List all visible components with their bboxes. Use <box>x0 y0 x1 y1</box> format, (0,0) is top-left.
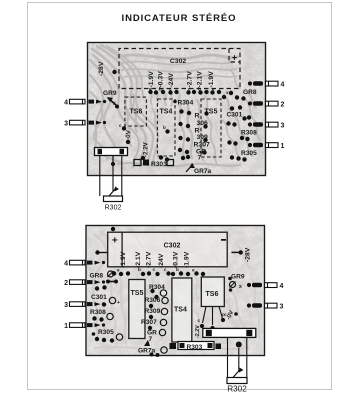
svg-text:GR8: GR8 <box>243 89 257 96</box>
svg-text:c: c <box>198 318 201 323</box>
svg-text:3: 3 <box>64 121 68 128</box>
diode GR7a bottom <box>138 340 167 355</box>
svg-text:R: R <box>195 113 200 120</box>
svg-text:2: 2 <box>281 102 285 109</box>
svg-text:-28V: -28V <box>98 61 105 76</box>
left pin 1 bottom <box>64 323 100 330</box>
svg-text:e: e <box>117 268 120 273</box>
right pin 4 bottom <box>247 283 284 290</box>
potentiometer R302 (top board) <box>104 187 123 212</box>
transistor TS6 dashed box <box>125 97 146 126</box>
svg-text:TS4: TS4 <box>174 307 187 314</box>
svg-text:GR7a: GR7a <box>194 168 212 175</box>
svg-text:b: b <box>176 267 179 272</box>
svg-text:-1.9V: -1.9V <box>120 251 127 268</box>
board outline bottom <box>86 226 265 356</box>
R302 connector block top board <box>95 148 128 167</box>
svg-text:R304: R304 <box>178 100 194 107</box>
svg-text:e: e <box>192 268 195 273</box>
svg-text:-0V: -0V <box>125 129 133 140</box>
svg-text:1: 1 <box>64 323 68 330</box>
svg-text:b: b <box>163 125 166 130</box>
svg-text:3: 3 <box>280 304 284 311</box>
diode GR7 bottom <box>147 329 166 343</box>
svg-text:TS4: TS4 <box>160 109 173 116</box>
svg-text:c: c <box>164 267 167 272</box>
resistor R303 bottom <box>170 342 222 352</box>
diode GR7a label and arrow <box>186 155 212 175</box>
svg-text:1: 1 <box>281 143 285 150</box>
right pin 2 <box>248 101 285 108</box>
capacitor C302 outline (bottom) <box>108 232 228 267</box>
svg-text:R306: R306 <box>145 297 161 304</box>
GR8 pads <box>235 95 239 99</box>
svg-text:-0.3V: -0.3V <box>173 251 180 268</box>
transistor TS5 dashed box <box>201 99 221 157</box>
capacitor C301 bottom <box>91 285 120 306</box>
R308 pads <box>226 121 230 125</box>
light smudges bottom board <box>90 230 260 349</box>
svg-text:y: y <box>113 100 116 105</box>
wires to R302 pot bottom <box>228 338 247 378</box>
wires to R302 pot <box>100 156 122 197</box>
svg-text:R307: R307 <box>141 319 157 326</box>
copper traces (gray) <box>90 45 260 167</box>
resistor R304 label <box>173 100 177 104</box>
R305 pads <box>227 140 231 144</box>
right pin 3 bottom <box>247 303 284 310</box>
svg-text:3: 3 <box>281 123 285 130</box>
svg-text:GR7a: GR7a <box>138 348 156 355</box>
svg-text:R303: R303 <box>151 161 167 168</box>
svg-text:C302: C302 <box>164 243 181 250</box>
svg-text:x: x <box>239 284 242 290</box>
svg-text:GR8: GR8 <box>90 273 104 280</box>
mid pads <box>126 140 130 144</box>
svg-text:x: x <box>226 90 229 95</box>
svg-text:-1.9V: -1.9V <box>148 71 155 88</box>
link pads <box>106 280 110 284</box>
R302 connector block bottom board <box>203 328 256 337</box>
svg-text:R305: R305 <box>98 329 114 336</box>
svg-text:R308: R308 <box>90 309 106 316</box>
svg-text:-2.1V: -2.1V <box>197 71 204 88</box>
svg-text:+: + <box>117 300 120 306</box>
bottom edge pads <box>150 353 154 357</box>
C301 pads <box>230 106 234 110</box>
left pin 4 <box>64 99 102 106</box>
svg-text:+: + <box>112 236 118 247</box>
pin letter row bottom board <box>117 267 195 273</box>
svg-text:4: 4 <box>281 82 285 89</box>
svg-text:-1.9V: -1.9V <box>184 251 191 268</box>
svg-text:GR9: GR9 <box>103 90 117 97</box>
svg-text:R303: R303 <box>187 344 203 351</box>
pad row bottom board <box>112 271 205 276</box>
svg-text:R302: R302 <box>227 385 247 394</box>
svg-text:C302: C302 <box>170 58 186 65</box>
resistor R309 bottom <box>145 308 168 319</box>
svg-text:4: 4 <box>280 283 284 290</box>
pad row under C302 <box>148 90 233 99</box>
GR9 diode <box>107 97 119 109</box>
board outline top <box>88 43 266 176</box>
svg-text:-28V: -28V <box>245 247 252 262</box>
svg-text:c: c <box>222 312 225 317</box>
transistor pin letters row <box>149 87 229 96</box>
svg-text:R309: R309 <box>145 308 161 315</box>
svg-text:3: 3 <box>64 302 68 309</box>
svg-text:R302: R302 <box>105 205 122 212</box>
svg-text:-2.1V: -2.1V <box>135 251 142 268</box>
right pin 1 <box>248 143 285 150</box>
left pin 3 bottom <box>64 302 100 309</box>
svg-text:7: 7 <box>198 155 202 162</box>
potentiometer R302 (bottom board) <box>227 368 247 394</box>
C302 minus <box>221 239 226 241</box>
svg-text:-2.2V: -2.2V <box>195 325 201 338</box>
resistor R306 bottom <box>145 297 169 308</box>
svg-text:c: c <box>119 123 122 128</box>
svg-text:-1.9V: -1.9V <box>208 71 215 88</box>
svg-text:GR9: GR9 <box>231 274 245 281</box>
right pin 4 <box>248 81 285 88</box>
svg-text:-24V: -24V <box>158 253 165 268</box>
svg-text:R308: R308 <box>241 130 257 137</box>
transistor TS6 box bottom <box>198 277 228 330</box>
svg-text:4: 4 <box>64 100 68 107</box>
transistor TS4 dashed box <box>157 99 175 156</box>
svg-text:INDICATEUR STÉRÉO: INDICATEUR STÉRÉO <box>122 13 237 24</box>
wire link top-left <box>95 250 99 254</box>
left pin 3 <box>64 120 102 127</box>
transistor TS5 box bottom <box>129 280 145 339</box>
component column pads <box>178 109 209 160</box>
svg-text:7: 7 <box>149 336 153 343</box>
svg-text:C301: C301 <box>227 112 243 119</box>
svg-text:TS6: TS6 <box>206 291 219 298</box>
diode GR9 bottom <box>228 274 245 292</box>
left pin 2 bottom <box>64 280 100 287</box>
resistor R303 pads and label <box>134 160 174 169</box>
diode GR8 bottom <box>90 271 114 280</box>
svg-text:TS5: TS5 <box>131 290 144 297</box>
dot -28V <box>112 70 116 74</box>
resistor R307 bottom <box>141 319 167 330</box>
svg-text:4: 4 <box>64 261 68 268</box>
svg-text:C301: C301 <box>91 294 107 301</box>
svg-text:-24V: -24V <box>168 73 175 88</box>
svg-text:-0.3V: -0.3V <box>158 71 165 88</box>
svg-text:R307: R307 <box>194 142 210 149</box>
svg-text:2: 2 <box>64 280 68 287</box>
svg-text:TS6: TS6 <box>130 109 143 116</box>
svg-text:+: + <box>232 53 237 63</box>
resistor R305 bottom <box>92 329 123 343</box>
resistor R304 bottom <box>149 284 167 299</box>
left pin 4 bottom <box>64 260 100 267</box>
svg-text:c: c <box>153 267 156 272</box>
svg-text:R305: R305 <box>241 150 257 157</box>
resistor R308 bottom <box>90 309 113 322</box>
svg-text:-2.7V: -2.7V <box>187 71 194 88</box>
svg-text:-2.7V: -2.7V <box>146 251 153 268</box>
svg-text:b: b <box>138 267 141 272</box>
transistor TS4 box bottom <box>172 278 192 342</box>
svg-text:-2.2V: -2.2V <box>143 141 150 157</box>
right pin 3 <box>248 122 285 129</box>
capacitor C302 dashed outline <box>119 49 240 89</box>
